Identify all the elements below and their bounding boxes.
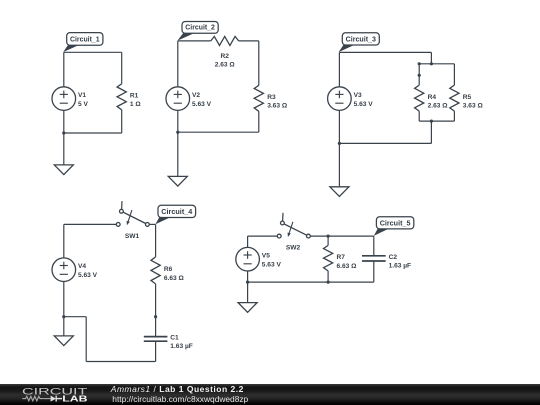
wire V1 top lead	[63, 52, 65, 87]
svg-text:V2: V2	[192, 92, 200, 99]
junction circuit5 ground node	[246, 281, 249, 284]
svg-text:3.63 Ω: 3.63 Ω	[267, 103, 288, 110]
wire circuit4 riser	[85, 317, 87, 362]
wire C2 top feed	[373, 236, 375, 256]
svg-text:R5: R5	[463, 94, 472, 101]
svg-text:5.63 V: 5.63 V	[78, 272, 98, 279]
wire V3 bottom lead	[338, 110, 340, 143]
ground GND4	[54, 336, 73, 346]
wire V2 bottom lead	[177, 110, 179, 132]
wire V5 top lead	[247, 236, 249, 247]
resistor R3	[254, 85, 263, 111]
ground GND5	[238, 303, 257, 313]
node label Circuit_2	[177, 22, 218, 41]
junction circuit2 ground node	[176, 131, 179, 134]
resistor R4	[415, 85, 424, 111]
svg-text:5.63 V: 5.63 V	[354, 101, 374, 108]
svg-text:1.63 µF: 1.63 µF	[170, 343, 193, 350]
switch SW1	[116, 201, 149, 226]
footer title text	[111, 384, 244, 394]
junction circuit3 ground node	[338, 142, 341, 145]
CircuitLab logo	[0, 384, 110, 405]
wire R3 bottom lead	[258, 111, 260, 132]
wire circuit2 top right	[239, 40, 259, 42]
wire R4 top lead	[418, 64, 420, 85]
svg-text:R1: R1	[130, 93, 139, 100]
resistor R2	[211, 36, 239, 45]
wire circuit5 top right	[310, 235, 374, 237]
voltage source V3	[328, 87, 352, 111]
node label Circuit_1	[63, 33, 103, 52]
node label Circuit_5	[374, 217, 414, 236]
junction upper bus left	[418, 62, 421, 65]
svg-text:V5: V5	[262, 253, 270, 260]
wire R4 bottom lead	[418, 111, 420, 121]
svg-text:V3: V3	[354, 92, 362, 99]
svg-text:1 Ω: 1 Ω	[130, 101, 141, 108]
svg-text:R2: R2	[220, 53, 229, 60]
junction lower bus mid	[430, 120, 433, 123]
wire circuit2 ground stem	[177, 132, 179, 176]
svg-text:3.63 Ω: 3.63 Ω	[463, 102, 484, 109]
wire V1 bottom lead	[63, 110, 65, 133]
junction circuit1 ground node	[62, 131, 65, 134]
wire R7 top lead	[327, 236, 329, 245]
wire circuit4 top	[64, 223, 117, 225]
node label Circuit_4	[155, 205, 195, 224]
logo resistor squiggle	[22, 396, 43, 401]
switch SW2	[277, 213, 310, 238]
capacitor C1	[144, 337, 168, 342]
wire R1 top lead	[121, 52, 123, 84]
svg-text:R4: R4	[428, 94, 437, 101]
svg-text:Circuit_1: Circuit_1	[70, 35, 100, 44]
resistor R1	[117, 84, 126, 110]
svg-text:6.63 Ω: 6.63 Ω	[164, 275, 185, 282]
wire circuit3 bottom	[339, 142, 431, 144]
capacitor C2	[362, 256, 386, 261]
wire circuit3 lower bus	[419, 120, 454, 122]
svg-text:1.63 µF: 1.63 µF	[389, 263, 412, 270]
resistor R7	[324, 245, 333, 271]
voltage source V2	[166, 87, 190, 111]
svg-text:C1: C1	[170, 334, 179, 341]
junction upper bus mid	[430, 62, 433, 65]
footer bar	[0, 384, 540, 405]
svg-text:V1: V1	[78, 92, 86, 99]
wire V3 top lead	[338, 52, 340, 87]
wire circuit5 top left	[248, 235, 278, 237]
svg-text:SW1: SW1	[125, 233, 140, 240]
resistor R5	[450, 85, 459, 111]
svg-text:R3: R3	[267, 94, 276, 101]
svg-text:5.63 V: 5.63 V	[262, 262, 282, 269]
wire R5 bottom lead	[453, 111, 455, 121]
svg-text:V4: V4	[78, 263, 86, 270]
voltage source V4	[52, 258, 76, 282]
wire V4 bottom lead	[63, 281, 65, 316]
junction circuit4 ground node	[62, 315, 65, 318]
footer url text	[112, 394, 248, 404]
svg-text:SW2: SW2	[286, 245, 301, 252]
wire R6 to C1	[155, 284, 157, 337]
junction R7 bottom node	[327, 281, 330, 284]
logo diode	[51, 396, 56, 402]
wire circuit4 return	[64, 316, 86, 318]
wire circuit5 bottom	[248, 281, 374, 283]
junction R6-C1 node	[154, 315, 157, 318]
wire R7 bottom lead	[327, 271, 329, 282]
wire R3 top lead	[258, 41, 260, 85]
wire R1 bottom lead	[121, 110, 123, 133]
wire circuit3 top	[339, 51, 431, 53]
ground GND2	[168, 176, 187, 186]
voltage source V5	[236, 247, 260, 271]
wire C2 bottom lead	[373, 261, 375, 283]
svg-text:R6: R6	[164, 266, 173, 273]
wire circuit4 bottom	[86, 361, 155, 363]
junction R7 top node	[327, 235, 330, 238]
svg-text:2.63 Ω: 2.63 Ω	[215, 61, 236, 68]
wire circuit1 ground stem	[63, 133, 65, 165]
wire C1 bottom lead	[155, 341, 157, 361]
svg-text:C2: C2	[389, 254, 398, 261]
wire circuit3 bottom feed	[430, 121, 432, 143]
svg-text:5.63 V: 5.63 V	[192, 101, 212, 108]
wire circuit2 top left	[178, 40, 211, 42]
svg-text:5 V: 5 V	[78, 101, 88, 108]
wire circuit5 ground stem	[247, 282, 249, 303]
svg-text:LAB: LAB	[62, 394, 87, 404]
wire circuit3 top feed	[430, 52, 432, 63]
node label Circuit_3	[339, 33, 380, 52]
wire V2 top lead	[177, 41, 179, 87]
svg-text:Circuit_3: Circuit_3	[346, 34, 376, 43]
ground GND3	[330, 187, 349, 197]
wire V5 bottom lead	[247, 271, 249, 282]
wire circuit1 bottom	[64, 132, 122, 134]
wire R6 top lead	[155, 224, 157, 257]
wire circuit4 ground stem	[63, 317, 65, 336]
wire SW1 to corner	[149, 223, 155, 225]
wire circuit3 upper bus	[419, 63, 454, 65]
ground GND1	[54, 165, 73, 175]
junction R4 branch	[418, 74, 421, 77]
wire circuit1 top	[64, 51, 122, 53]
svg-text:6.63 Ω: 6.63 Ω	[337, 263, 358, 270]
svg-text:Circuit_4: Circuit_4	[161, 207, 193, 216]
wire V4 top lead	[63, 224, 65, 258]
svg-text:Circuit_2: Circuit_2	[185, 23, 215, 32]
wire R5 top lead	[453, 64, 455, 85]
resistor R6	[151, 257, 160, 284]
wire circuit3 ground stem	[338, 143, 340, 186]
svg-text:2.63 Ω: 2.63 Ω	[428, 102, 449, 109]
voltage source V1	[52, 87, 76, 111]
svg-text:Circuit_5: Circuit_5	[380, 218, 411, 227]
wire circuit2 bottom	[178, 131, 259, 133]
svg-text:R7: R7	[337, 254, 346, 261]
